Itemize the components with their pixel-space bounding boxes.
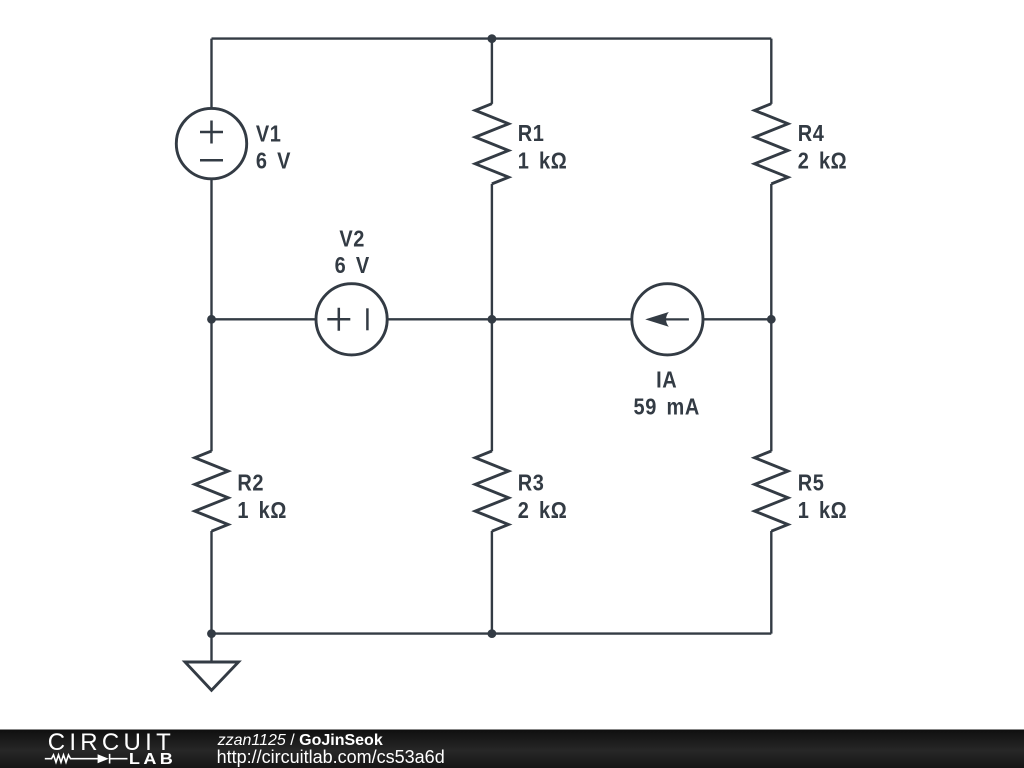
svg-text:IA: IA xyxy=(656,366,677,393)
svg-text:http://circuitlab.com/cs53a6d: http://circuitlab.com/cs53a6d xyxy=(217,747,445,767)
svg-text:V1: V1 xyxy=(256,120,282,147)
wire top rail xyxy=(212,37,772,39)
ground symbol xyxy=(185,662,239,690)
wire mid rail middle segment xyxy=(388,318,632,320)
voltage source V1 body xyxy=(176,108,246,178)
resistor R4 xyxy=(755,104,788,184)
resistor R5 xyxy=(755,451,788,531)
resistor R3 xyxy=(475,451,508,531)
svg-text:R5: R5 xyxy=(798,469,825,496)
svg-text:R4: R4 xyxy=(798,119,825,146)
svg-text:LAB: LAB xyxy=(129,750,176,768)
wire R2 bottom to ground node xyxy=(210,531,212,662)
wire bottom rail xyxy=(212,632,772,634)
voltage source V2 body xyxy=(316,284,387,355)
wire R5 bottom xyxy=(770,531,772,634)
svg-text:R3: R3 xyxy=(518,469,545,496)
wire V1 top xyxy=(210,39,212,109)
wire mid rail left segment xyxy=(212,318,317,320)
V1 minus sign xyxy=(200,159,223,162)
wire mid node to R2 top xyxy=(210,319,212,451)
V2 plus sign xyxy=(327,308,350,331)
svg-text:1 kΩ: 1 kΩ xyxy=(518,147,568,174)
wire R4 top xyxy=(770,39,772,104)
node mid right xyxy=(767,315,776,324)
V2 minus sign (rotated) xyxy=(366,308,369,330)
logo diode triangle xyxy=(98,754,109,763)
node bottom middle xyxy=(488,629,497,638)
node mid left xyxy=(207,315,216,324)
svg-text:2 kΩ: 2 kΩ xyxy=(518,496,568,523)
IA arrow shaft xyxy=(663,318,689,320)
wire mid node to R5 top xyxy=(770,319,772,451)
resistor R1 xyxy=(475,104,508,184)
svg-text:2 kΩ: 2 kΩ xyxy=(798,147,848,174)
wire R1 bottom to mid rail xyxy=(491,184,493,319)
svg-text:R2: R2 xyxy=(237,469,264,496)
wire mid rail right segment xyxy=(703,318,771,320)
wire R4 bottom to mid rail xyxy=(770,184,772,319)
wire V1 bottom to mid rail xyxy=(210,179,212,319)
wire mid node to R3 top xyxy=(491,319,493,451)
svg-text:59 mA: 59 mA xyxy=(634,393,700,420)
node top middle xyxy=(488,34,497,43)
svg-text:6 V: 6 V xyxy=(256,147,291,174)
logo resistor-diode squiggle xyxy=(45,754,128,764)
wire R1 top xyxy=(491,39,493,104)
svg-text:6 V: 6 V xyxy=(335,252,370,279)
V1 plus sign xyxy=(200,121,223,144)
svg-text:V2: V2 xyxy=(339,225,365,252)
IA arrowhead xyxy=(645,312,669,327)
wire R3 bottom xyxy=(491,531,493,634)
svg-text:1 kΩ: 1 kΩ xyxy=(798,496,848,523)
svg-text:1 kΩ: 1 kΩ xyxy=(237,496,287,523)
node mid middle xyxy=(488,315,497,324)
resistor R2 xyxy=(195,451,228,531)
node bottom left xyxy=(207,629,216,638)
current source IA body xyxy=(632,284,703,355)
svg-text:R1: R1 xyxy=(518,119,545,146)
